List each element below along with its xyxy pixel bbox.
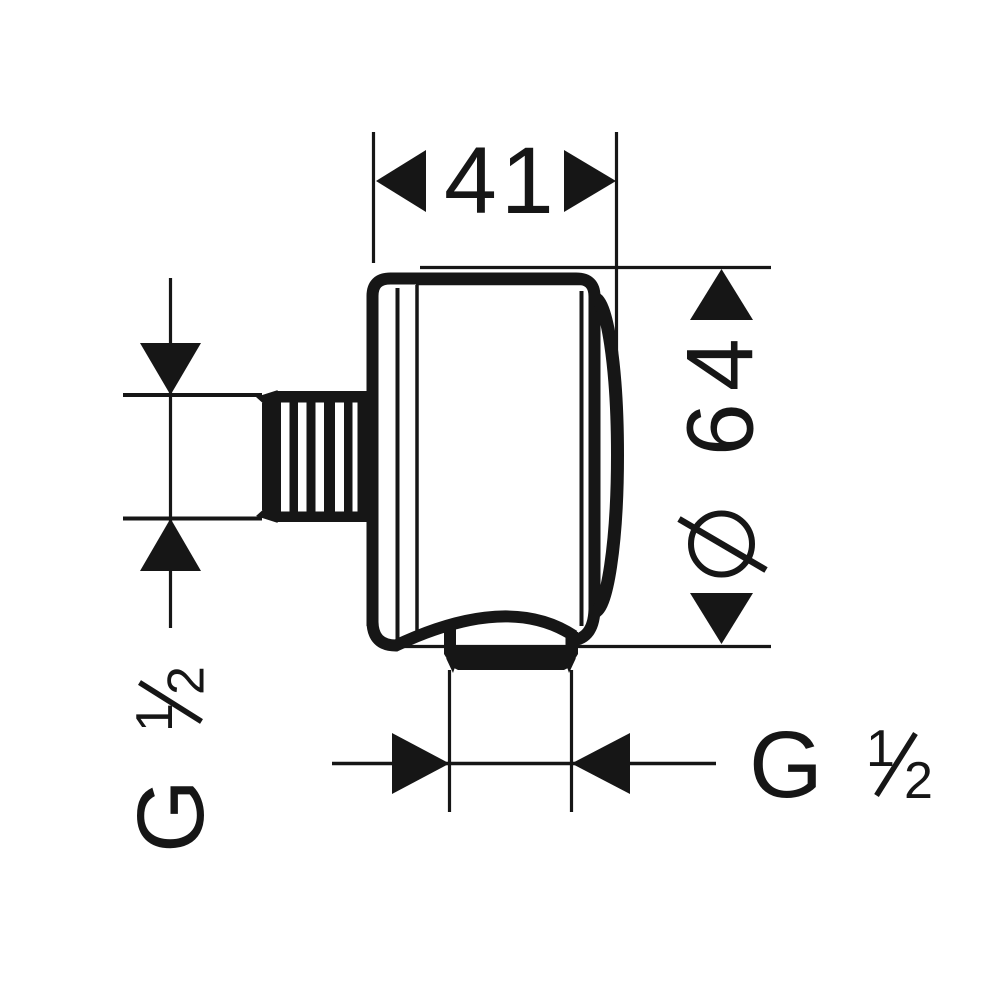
dim 41: right arrow xyxy=(564,150,616,212)
svg-text:G: G xyxy=(749,712,823,818)
escutcheon body outline (left edge, top edge, right edge) xyxy=(373,279,595,627)
threaded pipe G1/2 (left inlet) xyxy=(262,391,378,522)
dim G1/2 left: down arrow xyxy=(140,343,201,395)
inner rim line 2 xyxy=(415,285,419,635)
outlet nut body xyxy=(444,648,578,670)
dim G1/2 bottom: right extension line xyxy=(570,670,573,812)
svg-text:G: G xyxy=(118,779,224,853)
dim G1/2 bottom: right-pointing arrow xyxy=(392,733,450,794)
dim diameter 64: bottom extension line xyxy=(400,645,771,648)
thread slots (white) xyxy=(281,403,358,512)
pipe chamfer point top xyxy=(256,390,278,406)
dim G1/2 left: bottom tick xyxy=(123,517,262,521)
nut bevel tip right xyxy=(566,658,576,673)
inner rim line 1 xyxy=(396,288,400,642)
svg-text:64: 64 xyxy=(668,326,774,456)
dim G1/2 left: dimension line xyxy=(169,278,172,628)
diameter symbol circle xyxy=(691,514,752,575)
dim diameter 64: top extension line xyxy=(420,266,771,269)
dim diameter 64: down arrow xyxy=(690,593,753,644)
bottom-left corner and bottom silhouette arc xyxy=(373,616,575,645)
nut bevel tip left xyxy=(446,658,456,673)
inner top line xyxy=(416,282,583,286)
domed face arc xyxy=(594,298,617,612)
dim G1/2 left: top tick xyxy=(123,393,262,397)
outlet nut left shoulder xyxy=(444,627,456,648)
svg-text:41: 41 xyxy=(444,128,558,234)
dim G1/2 bottom: left extension line xyxy=(448,670,451,812)
dim diameter 64: up arrow xyxy=(690,269,753,320)
bottom-right corner xyxy=(571,604,595,641)
pipe chamfer point bottom xyxy=(256,507,278,523)
outlet nut right shoulder xyxy=(566,632,579,648)
dim G1/2 left: up arrow xyxy=(140,519,201,572)
dim G1/2 bottom: left-pointing arrow xyxy=(572,733,631,794)
dim 41: left arrow xyxy=(376,150,426,212)
dim G1/2 left: label rotated xyxy=(118,666,224,853)
dim 41: right extension line xyxy=(615,132,618,353)
dim G1/2 bottom: dimension line xyxy=(332,762,716,766)
svg-text:2: 2 xyxy=(904,752,933,810)
right rim thin line xyxy=(580,291,584,626)
diameter symbol slash xyxy=(679,519,766,570)
dim 41: left extension line xyxy=(372,132,375,263)
svg-text:2: 2 xyxy=(158,666,216,695)
